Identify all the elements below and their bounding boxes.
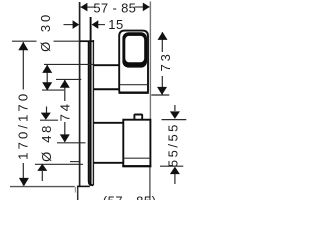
- dim 15 tails: [64, 24, 74, 26]
- dim 55/55 bottom tick: [160, 165, 183, 167]
- lever handle hole ring: [122, 32, 147, 67]
- dim 170/170 arrow up: [18, 42, 28, 50]
- dim O30 arrow down: [42, 82, 52, 90]
- dim 74 arrow up: [60, 80, 70, 88]
- dim 170/170 bottom tick: [10, 186, 75, 188]
- knob body: [123, 120, 150, 167]
- lever stem bottom line: [94, 88, 120, 90]
- dim 15 arrow pointing right: [73, 20, 80, 29]
- lever handle hole interior: [125, 36, 144, 62]
- dim 170/170 top tick: [12, 40, 37, 42]
- knob stem bottom line: [94, 162, 123, 164]
- knob stem top line: [94, 122, 123, 124]
- dim 170/170 line: [22, 42, 24, 90]
- plate mid line (15 ext): [90, 17, 92, 185]
- gray vertical ext line right (57-85 / knob front): [149, 2, 151, 120]
- plate back thick line: [89, 42, 94, 186]
- dim 57-85 arrow left: [81, 3, 88, 12]
- dim O48 arrow down (above): [46, 107, 48, 115]
- svg-text:170/170: 170/170: [16, 91, 31, 160]
- svg-text:57 - 85: 57 - 85: [93, 0, 136, 15]
- knob bottom edge thick: [122, 165, 151, 167]
- dim 55/55 top tick: [162, 119, 187, 121]
- stem bottom ext stub: [70, 161, 81, 163]
- dim 73 bottom tick: [151, 94, 169, 96]
- svg-text:Ø 30: Ø 30: [38, 12, 53, 52]
- dim 74 arrow down: [60, 134, 70, 142]
- dim 55/55 arrow up (below): [174, 174, 176, 184]
- dim 73 line: [161, 32, 163, 52]
- plate top edge: [80, 40, 94, 42]
- lever handle inner thin line: [120, 84, 148, 86]
- svg-text:(57 - 85): (57 - 85): [103, 193, 157, 200]
- bottom ext line short gray: [74, 187, 76, 193]
- wall line: [79, 2, 81, 187]
- bottom ext line to edge: [77, 187, 79, 200]
- dim O30 arrow up: [42, 65, 52, 73]
- dim 73 arrow down: [157, 87, 167, 95]
- plate front face line: [92, 40, 94, 185]
- dim 57-85 line: [81, 6, 96, 8]
- lever handle bottom edge thick: [119, 91, 149, 93]
- knob tab: [134, 115, 142, 120]
- dim 55/55 arrow down (above): [174, 105, 176, 111]
- svg-text:74: 74: [58, 101, 73, 121]
- dim 57-85 arrow right: [143, 3, 150, 12]
- knob inner line bottom: [124, 157, 151, 159]
- dim 15 arrow pointing left: [92, 20, 99, 29]
- dim O48 top tick: [40, 119, 58, 121]
- dim 74 top tick: [56, 78, 81, 80]
- dim O30 line: [46, 65, 48, 90]
- dim 74 line: [64, 80, 66, 101]
- svg-text:73: 73: [158, 51, 173, 71]
- dim 170/170 arrow down: [19, 178, 29, 186]
- dim O48 arrow up (below): [41, 171, 43, 181]
- dim O30 bottom tick: [42, 89, 64, 91]
- dim O48 bottom ext line: [35, 163, 83, 165]
- lever stem top line: [94, 64, 120, 66]
- lever handle outer body: [119, 31, 148, 93]
- plate bottom edge: [77, 185, 90, 187]
- svg-text:15: 15: [108, 17, 123, 32]
- dim 74 bottom tick: [57, 142, 86, 144]
- svg-text:55/55: 55/55: [166, 122, 181, 167]
- vertical ext line below knob: [149, 167, 151, 201]
- dim 73 arrow up: [158, 32, 168, 40]
- svg-text:Ø 48: Ø 48: [39, 123, 54, 162]
- dim O30 top ext line: [44, 63, 93, 65]
